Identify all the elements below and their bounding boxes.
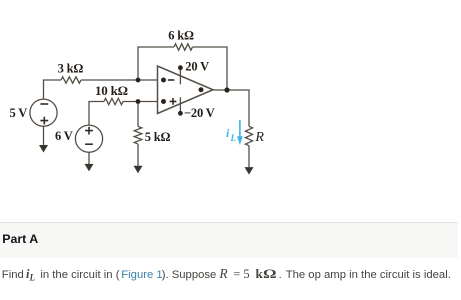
svg-text:10 kΩ: 10 kΩ (95, 83, 128, 98)
svg-text:20 V: 20 V (185, 60, 209, 74)
svg-text:L: L (230, 133, 237, 143)
svg-text:−20 V: −20 V (184, 106, 215, 120)
svg-text:3 kΩ: 3 kΩ (58, 62, 84, 76)
svg-text:5 kΩ: 5 kΩ (145, 130, 171, 144)
svg-text:R: R (254, 130, 264, 145)
svg-text:6 kΩ: 6 kΩ (168, 28, 194, 42)
svg-text:5 V: 5 V (10, 106, 28, 120)
svg-text:i: i (226, 126, 230, 140)
svg-text:6 V: 6 V (55, 129, 73, 143)
